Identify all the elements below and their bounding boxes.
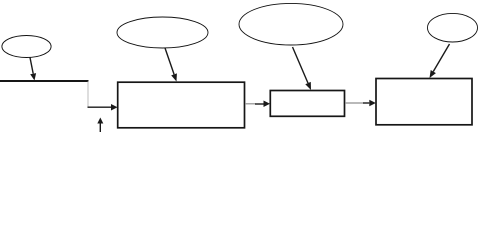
box 3: [270, 91, 344, 117]
arrow from ellipse 1 down to box 1: [30, 58, 36, 81]
box 1 right edge (faint): [87, 82, 89, 107]
ellipse (oval) 3: [239, 3, 343, 45]
arrow from ellipse 3 down to box 3: [293, 47, 312, 90]
arrow from box 3 to box 4 (gray lead segment): [345, 100, 376, 106]
upward arrow entering from bottom edge: [97, 118, 103, 133]
arrow from ellipse 2 down to box 2: [165, 48, 177, 82]
arrow from box 1 to box 2: [88, 104, 118, 111]
ellipse (oval) 4, top-right: [428, 13, 478, 42]
box 1 (partially cropped at left edge): top edge: [0, 80, 89, 82]
box 4: [376, 79, 472, 125]
ellipse (oval) 1, top-left: [2, 36, 51, 58]
arrow from ellipse 4 down to box 4: [430, 44, 450, 78]
arrow from box 2 to box 3 (gray lead segment): [245, 101, 270, 108]
ellipse (oval) 2: [117, 17, 208, 48]
box 2: [118, 82, 245, 128]
